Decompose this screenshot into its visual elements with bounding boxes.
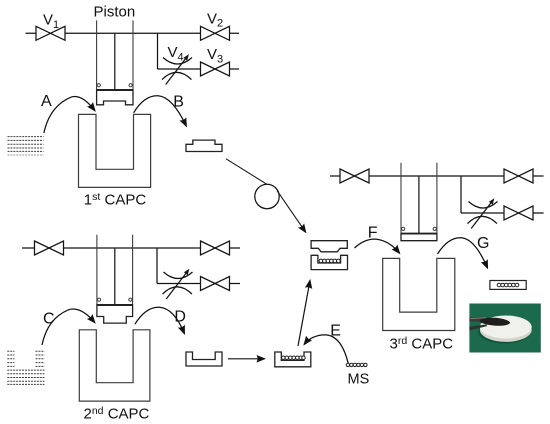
arrow C [42, 309, 95, 345]
wire pipe2 main line [22, 247, 240, 249]
photo background [469, 304, 540, 353]
arrow F [355, 239, 400, 253]
wire branch3 horizontal [461, 212, 544, 214]
svg-text:Piston: Piston [94, 4, 136, 21]
piston2 seal ring left [98, 298, 101, 301]
svg-text:2nd CAPC: 2nd CAPC [84, 405, 150, 423]
arrow tray1 to tray2 [228, 358, 265, 360]
arrow B [134, 96, 187, 126]
press tray [311, 255, 347, 269]
valve bottom-right of pipe3 [504, 206, 533, 220]
svg-text:3rd CAPC: 3rd CAPC [390, 335, 454, 353]
final pellet plate [490, 281, 526, 290]
pellet from 1st CAPC [186, 140, 222, 151]
piston1 head with mold notch [97, 90, 133, 105]
sample stack 1 (dashed rows) [8, 137, 44, 155]
piston1 seal ring right [129, 84, 132, 87]
press tray coil [319, 259, 340, 263]
piston2 seal ring right [129, 298, 132, 301]
valve left of pipe3 [340, 169, 369, 183]
svg-text:D: D [174, 309, 186, 326]
wire branch2 horizontal [157, 283, 240, 285]
piston3 cylinder walls [401, 163, 437, 234]
svg-text:V3: V3 [207, 46, 223, 65]
svg-text:G: G [477, 235, 489, 252]
arrow D [135, 307, 185, 333]
svg-text:1st CAPC: 1st CAPC [84, 191, 147, 209]
conveyor line upper segment [226, 159, 277, 191]
svg-text:A: A [41, 93, 52, 110]
photo disc shadow [478, 319, 531, 343]
valve V2 [201, 26, 230, 40]
cup 3rd CAPC [383, 258, 455, 330]
svg-text:C: C [43, 310, 55, 327]
sample stack 2 (dashed rows, split top) [7, 351, 44, 384]
svg-text:V2: V2 [207, 10, 223, 29]
piston1 seal ring left [97, 84, 100, 87]
metering valve V4 [162, 54, 192, 84]
photo tweezers upper arm [469, 317, 483, 322]
arrow G [438, 238, 488, 268]
metering valve of assembly2 [163, 269, 193, 299]
photo tweezers lower prong [469, 324, 487, 330]
metering valve of assembly3 [468, 198, 498, 228]
piston1 cylinder walls [97, 20, 133, 90]
wire pipe1 main line [26, 32, 240, 34]
valve left of pipe2 [35, 241, 64, 255]
valve top-right of pipe2 [201, 241, 230, 255]
press lid with boss [311, 241, 347, 252]
arrow tray2 to press [298, 281, 310, 347]
wire branch2 vertical [156, 248, 158, 284]
arrow A [44, 97, 95, 133]
svg-text:V1: V1 [43, 12, 59, 31]
piston2 rod [114, 248, 116, 305]
cup 2nd CAPC [79, 330, 150, 401]
wire branch1 vertical [157, 33, 159, 69]
valve V3 [201, 62, 230, 76]
valve bottom-right of pipe2 [201, 277, 230, 291]
MS coil [346, 363, 367, 366]
piston2 head with boss [97, 305, 133, 323]
photo disc top [480, 316, 532, 339]
wire branch3 vertical [460, 176, 462, 213]
piston3 flat head [401, 234, 437, 241]
piston3 seal ring right [433, 227, 436, 230]
tray with MS coil [275, 352, 311, 367]
valve top-right of pipe3 [504, 169, 533, 183]
photo tweezers grip cigar [479, 317, 510, 327]
piston2 cylinder walls [97, 235, 133, 305]
photo tweezers highlight [471, 317, 487, 320]
piston1 rod [114, 33, 116, 90]
arrow E [304, 335, 348, 365]
coil in tray2 [282, 356, 306, 360]
wire branch1 horizontal [158, 68, 240, 70]
piston3 rod [418, 176, 420, 234]
svg-text:MS: MS [348, 371, 370, 387]
tray pellet from 2nd CAPC [186, 352, 222, 366]
wire pipe3 main line [330, 175, 544, 177]
cup 1st CAPC [79, 114, 151, 187]
svg-text:V4: V4 [168, 44, 184, 63]
coil in final pellet [497, 283, 519, 287]
photo disc rim [480, 318, 532, 342]
conveyor pulley circle [255, 184, 279, 208]
svg-text:B: B [173, 94, 184, 111]
piston3 seal ring left [402, 227, 405, 230]
valve V1 [36, 26, 65, 40]
conveyor arrow to press [277, 191, 306, 233]
